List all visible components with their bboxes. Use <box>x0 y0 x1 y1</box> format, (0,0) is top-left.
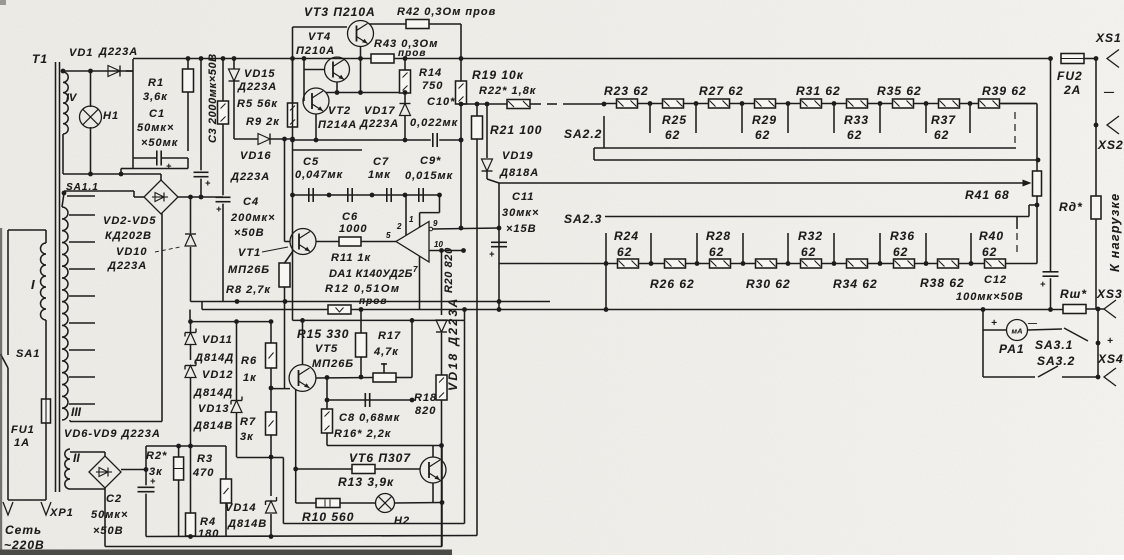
svg-text:62: 62 <box>847 128 862 142</box>
zener VD14 <box>270 457 272 496</box>
svg-text:R11 1к: R11 1к <box>331 252 372 264</box>
wire VT5 collector <box>302 320 304 364</box>
resistor R12 <box>328 305 351 314</box>
transistor VT1 <box>290 229 316 255</box>
svg-text:FU2: FU2 <box>1057 69 1083 83</box>
svg-text:I: I <box>31 277 35 292</box>
zener VD11 <box>190 322 192 332</box>
wire VT6 emitter <box>432 483 434 503</box>
resistor R6 <box>270 322 272 343</box>
svg-text:VT6 П307: VT6 П307 <box>349 451 411 465</box>
diode VD16 <box>258 134 270 145</box>
svg-text:FU1: FU1 <box>11 424 35 436</box>
svg-text:R22* 1,8к: R22* 1,8к <box>479 85 537 97</box>
svg-text:820: 820 <box>415 405 436 417</box>
wire top primary <box>8 229 46 231</box>
row1 chain wire <box>604 103 1036 105</box>
connector XS3 <box>1104 300 1116 318</box>
wire R42 to rail drop <box>429 23 461 25</box>
row2 junction stubs <box>604 261 609 266</box>
wire bridge II plus <box>121 469 146 471</box>
wire lamp H1 top <box>90 71 92 107</box>
fuse FU1 <box>42 399 51 423</box>
svg-text:ХS2: ХS2 <box>1097 138 1124 152</box>
svg-text:3к: 3к <box>149 466 163 478</box>
svg-text:R21 100: R21 100 <box>490 123 542 137</box>
svg-text:180: 180 <box>198 528 219 540</box>
svg-text:R16* 2,2к: R16* 2,2к <box>334 428 392 440</box>
resistor R5 <box>292 59 294 104</box>
wire VT4 base <box>304 69 325 71</box>
row1 junction stubs <box>648 101 653 106</box>
switch SA2.2 contact dash <box>547 103 557 105</box>
resistor R11 <box>339 237 361 246</box>
node winding IV top <box>61 69 66 74</box>
svg-text:Д223А: Д223А <box>230 171 270 183</box>
svg-text:С7: С7 <box>373 156 389 168</box>
svg-text:IV: IV <box>66 92 78 104</box>
svg-text:750: 750 <box>422 80 443 92</box>
opamp pin 9 line <box>429 227 433 231</box>
svg-text:R40: R40 <box>979 229 1004 243</box>
capacitor C4 <box>222 124 224 195</box>
wire emitters bus <box>326 92 405 94</box>
diode VD18 <box>441 251 443 316</box>
svg-text:С9*: С9* <box>420 155 441 167</box>
mains wire left (SA1 branch) <box>7 230 9 355</box>
svg-text:+: + <box>216 204 222 214</box>
resistor R1 <box>187 59 189 70</box>
wire R2 bus <box>146 445 226 447</box>
svg-text:Д814Д: Д814Д <box>193 387 233 399</box>
capacitor C2 <box>145 446 147 485</box>
opamp pin 10 line <box>429 250 464 252</box>
top rail left segment <box>133 58 371 60</box>
diode VD19 <box>486 104 488 158</box>
switch SA3.2 <box>1038 366 1058 377</box>
svg-text:0,015мк: 0,015мк <box>405 170 454 182</box>
resistor R24 <box>618 259 639 268</box>
svg-text:0,022мк: 0,022мк <box>410 117 459 129</box>
resistor R17 <box>373 373 396 382</box>
svg-text:R30 62: R30 62 <box>746 277 791 291</box>
svg-text:×50мк: ×50мк <box>141 137 179 149</box>
resistor R37 <box>939 99 960 108</box>
svg-text:Rш*: Rш* <box>1060 287 1087 301</box>
svg-text:×50В: ×50В <box>234 227 265 239</box>
transistor VT3 <box>348 21 374 47</box>
svg-text:П214А: П214А <box>318 119 357 131</box>
winding II <box>65 449 70 489</box>
capacitor C10 <box>432 133 434 147</box>
svg-text:Д814В: Д814В <box>227 518 267 530</box>
wire bridge plus to C4 <box>178 196 223 198</box>
svg-text:КД202В: КД202В <box>105 230 152 242</box>
svg-text:62: 62 <box>801 245 816 259</box>
svg-text:С12: С12 <box>984 274 1007 286</box>
resistor R25 <box>663 99 684 108</box>
svg-text:62: 62 <box>982 245 997 259</box>
wire H2 to VT6 emitter <box>395 502 443 505</box>
wire VD10 line <box>190 197 192 233</box>
svg-text:R23 62: R23 62 <box>604 84 649 98</box>
wire winding I to FU1 <box>45 320 47 399</box>
wire stabilizer box left edge <box>292 27 294 320</box>
resistor R21 <box>476 104 478 116</box>
svg-text:VT1: VT1 <box>238 247 261 259</box>
svg-text:R4: R4 <box>200 516 216 528</box>
svg-text:Д814Д: Д814Д <box>194 352 234 364</box>
svg-text:R1: R1 <box>148 77 164 89</box>
svg-text:VD12: VD12 <box>202 369 234 381</box>
svg-text:×50В: ×50В <box>93 525 124 537</box>
linkage dashes row2 <box>1016 233 1018 256</box>
wire loop line y320 <box>293 319 465 321</box>
wire VT3 emitter down <box>360 47 362 93</box>
resistor R22 <box>507 100 530 109</box>
resistor R16 <box>326 378 328 409</box>
winding IV <box>63 72 68 134</box>
svg-text:R26 62: R26 62 <box>650 277 695 291</box>
wire jog to box <box>120 169 122 175</box>
wire SA2.2 blade <box>563 103 604 105</box>
resistor R4 <box>190 446 192 513</box>
wire lamp H1 bottom <box>90 127 92 174</box>
wire C8 bus <box>327 399 412 401</box>
zener VD12 <box>185 366 196 378</box>
wire R21 down <box>476 139 478 536</box>
resistor R43 in rail <box>371 54 394 63</box>
wire caps bus <box>293 194 440 196</box>
svg-text:R8 2,7к: R8 2,7к <box>226 284 271 296</box>
resistor R27 <box>709 99 730 108</box>
svg-text:R32: R32 <box>798 229 823 243</box>
wire winding III top lead <box>62 193 64 207</box>
svg-text:VD6-VD9 Д223А: VD6-VD9 Д223А <box>64 428 161 440</box>
bridge VD2-VD5 <box>144 180 178 214</box>
plug XP1 <box>8 499 46 501</box>
opamp pin 2 <box>405 195 407 236</box>
svg-text:РА1: РА1 <box>999 342 1025 356</box>
svg-text:SA2.3: SA2.3 <box>564 212 602 226</box>
svg-text:Rд*: Rд* <box>1059 200 1083 214</box>
wire winding IV top <box>63 70 133 72</box>
node SA1.1 wiper <box>62 191 67 196</box>
svg-text:SA3.2: SA3.2 <box>1037 354 1075 368</box>
wire VT5 base link <box>270 388 290 390</box>
wire R10 to H2 <box>340 502 376 504</box>
wire winding III bottom lead <box>70 421 162 423</box>
svg-text:VD19: VD19 <box>502 150 534 162</box>
top rail middle segment <box>394 58 1051 60</box>
svg-text:VD18 Д223А: VD18 Д223А <box>446 296 460 391</box>
svg-text:Д223А: Д223А <box>107 260 147 272</box>
svg-text:R12 0,51Ом: R12 0,51Ом <box>325 283 400 295</box>
lamp H1 <box>80 106 102 128</box>
wire winding IV bottom <box>62 134 64 174</box>
svg-text:VD15: VD15 <box>244 68 276 80</box>
svg-text:R33: R33 <box>844 113 869 127</box>
wire stabilizer box top <box>293 149 363 151</box>
resistor R10 <box>316 499 340 508</box>
svg-text:R19 10к: R19 10к <box>472 68 524 82</box>
svg-text:II: II <box>73 451 80 465</box>
transistor VT4 <box>325 57 350 82</box>
svg-text:SA3.1: SA3.1 <box>1035 338 1073 352</box>
svg-text:ХS1: ХS1 <box>1095 31 1122 45</box>
svg-text:VD13: VD13 <box>198 403 230 415</box>
svg-text:62: 62 <box>709 245 724 259</box>
zener VD13 <box>236 322 238 400</box>
wire R16 bottom bus <box>327 445 442 447</box>
svg-text:ХS4: ХS4 <box>1097 352 1124 366</box>
svg-text:—: — <box>1027 318 1038 328</box>
svg-text:VD2-VD5: VD2-VD5 <box>103 215 156 227</box>
wire VT4 emitter down <box>336 82 338 93</box>
svg-text:пров: пров <box>398 48 426 59</box>
linkage dashes row1 <box>1014 112 1016 146</box>
opamp pin 7 <box>419 256 421 310</box>
resistor R29 <box>755 99 776 108</box>
svg-text:2: 2 <box>396 222 402 231</box>
svg-text:пров: пров <box>359 296 387 307</box>
svg-text:R9 2к: R9 2к <box>246 116 280 128</box>
svg-text:Н1: Н1 <box>103 110 119 122</box>
lamp H2 <box>376 494 395 513</box>
node R42 drop <box>459 56 464 61</box>
svg-text:470: 470 <box>192 467 214 479</box>
resistor Rd <box>1091 196 1101 219</box>
leader VT1 <box>262 247 288 252</box>
svg-text:VD1: VD1 <box>69 47 93 59</box>
node C3 bottom <box>199 195 204 200</box>
resistor R7 <box>266 412 277 435</box>
resistor R23 <box>617 99 638 108</box>
switch SA3.1 <box>1064 328 1088 341</box>
wire R13 bus <box>296 468 352 470</box>
svg-text:SA2.2: SA2.2 <box>564 127 602 141</box>
wire VT6 line to bottom rail <box>441 446 443 547</box>
resistor R31 <box>801 99 822 108</box>
rail step <box>201 302 203 310</box>
bus SA2.3 <box>605 216 1029 218</box>
node rail to FU2 <box>1048 56 1053 61</box>
wire loop stub <box>464 310 466 321</box>
svg-text:С2: С2 <box>106 493 122 505</box>
svg-text:1: 1 <box>409 215 414 224</box>
SA2.3 wiper tick <box>1016 217 1018 230</box>
fuse FU2 <box>1061 54 1084 64</box>
svg-text:VD17: VD17 <box>364 105 396 117</box>
wire meter to SA3.1 <box>1028 329 1063 330</box>
connector XS1 <box>1107 50 1119 68</box>
wire R19 bottom to pin9 <box>460 104 462 228</box>
svg-text:R13 3,9к: R13 3,9к <box>338 475 394 489</box>
svg-text:R28: R28 <box>706 229 731 243</box>
svg-text:Д814В: Д814В <box>193 420 233 432</box>
node VD10 top <box>188 195 193 200</box>
capacitor C3 <box>200 59 202 171</box>
svg-text:1к: 1к <box>243 372 257 384</box>
svg-text:Н2: Н2 <box>394 515 410 527</box>
leader VD10 <box>155 247 180 252</box>
svg-text:VD11: VD11 <box>202 334 233 346</box>
transformer core <box>55 62 57 492</box>
transistor VT5 <box>289 365 316 392</box>
resistor R13 <box>352 465 375 474</box>
wire VT1 to R11 <box>316 241 339 243</box>
switch SA1 <box>1 354 9 368</box>
svg-text:4,7к: 4,7к <box>373 346 399 358</box>
diode VD1 <box>108 66 120 77</box>
wire winding II to bridge top <box>70 451 105 453</box>
svg-text:62: 62 <box>893 245 908 259</box>
svg-text:3,6к: 3,6к <box>143 91 168 103</box>
winding I <box>41 243 46 320</box>
wire loop bottom <box>283 523 464 525</box>
svg-text:ХS3: ХS3 <box>1096 287 1123 301</box>
svg-text:+: + <box>166 161 172 171</box>
svg-text:+: + <box>991 318 998 329</box>
svg-text:50мк×: 50мк× <box>137 122 174 134</box>
wire VD13 bottom bus <box>237 457 272 459</box>
svg-text:+: + <box>489 249 495 259</box>
winding III taps <box>67 195 95 197</box>
wire SA3.2 bottom <box>983 376 1035 378</box>
node SA3.1 <box>1096 341 1101 346</box>
svg-text:Сеть: Сеть <box>5 523 42 537</box>
svg-text:62: 62 <box>617 245 632 259</box>
svg-text:R29: R29 <box>752 113 777 127</box>
wire R6-R7 node <box>270 368 272 412</box>
wire R8 node down to VT5 base <box>284 302 286 389</box>
wire R22 to SA2.2 gap <box>530 103 541 105</box>
wire XS1 to XS2 <box>1095 59 1097 197</box>
wire box left edge <box>132 59 134 169</box>
wire R11 to opamp <box>361 241 396 243</box>
wire R39 to pot drop <box>1001 103 1037 105</box>
svg-text:Т1: Т1 <box>32 52 48 66</box>
svg-text:+: + <box>1107 336 1114 347</box>
wire VT2 base <box>303 100 304 102</box>
rail R8 bottom <box>191 301 551 303</box>
svg-text:R27 62: R27 62 <box>699 84 744 98</box>
resistor R8 <box>285 251 294 263</box>
scan edge bottom <box>0 550 452 556</box>
wire pot bottom <box>1036 196 1038 205</box>
svg-text:Д818А: Д818А <box>499 167 539 179</box>
capacitor C6 <box>347 188 349 202</box>
svg-text:50мк×: 50мк× <box>91 509 128 521</box>
wire SA1.1 to bridge <box>64 190 134 192</box>
svg-text:9: 9 <box>433 219 438 228</box>
wire R22 node <box>461 103 507 105</box>
svg-text:VT5: VT5 <box>315 343 338 355</box>
wire R17 right up <box>396 377 412 379</box>
svg-text:R35 62: R35 62 <box>877 84 922 98</box>
resistor R15 <box>360 310 362 334</box>
wire meter branch down <box>982 310 984 378</box>
wire left drop to H2 bus <box>295 469 297 503</box>
resistor R34 <box>847 259 868 268</box>
svg-text:МП26Б: МП26Б <box>312 358 354 370</box>
svg-text:R24: R24 <box>614 229 639 243</box>
wire winding II to bridge bottom <box>70 488 105 490</box>
svg-text:—: — <box>1103 87 1115 98</box>
svg-text:VT2: VT2 <box>328 105 351 117</box>
svg-text:С8 0,68мк: С8 0,68мк <box>339 412 401 424</box>
svg-text:VT3 П210А: VT3 П210А <box>304 5 376 19</box>
wire C10 bus <box>293 139 431 141</box>
svg-text:С5: С5 <box>303 156 319 168</box>
wire FU1 to plug <box>45 423 47 500</box>
resistor R35 <box>893 99 914 108</box>
svg-text:R7: R7 <box>240 416 256 428</box>
svg-text:С6: С6 <box>342 211 358 223</box>
resistor R36 <box>894 259 915 268</box>
svg-text:мА: мА <box>1012 327 1023 336</box>
wire VT5 emitter down <box>295 390 297 470</box>
wire VT2 emitter down <box>315 114 317 140</box>
svg-text:R41 68: R41 68 <box>965 188 1010 202</box>
svg-text:R18: R18 <box>414 392 437 404</box>
svg-text:ХР1: ХР1 <box>49 507 74 519</box>
svg-text:VD10: VD10 <box>116 246 148 258</box>
svg-text:Д223А: Д223А <box>359 118 399 130</box>
resistor R30 <box>756 259 777 268</box>
diode VD17 <box>404 93 406 103</box>
row2 chain wire <box>499 263 606 265</box>
svg-text:С4: С4 <box>243 196 259 208</box>
svg-text:62: 62 <box>665 128 680 142</box>
svg-text:3к: 3к <box>240 431 254 443</box>
wire pin9 to C11 <box>498 183 500 310</box>
svg-text:R17: R17 <box>378 330 401 342</box>
resistor R33 <box>847 99 868 108</box>
resistor R32 <box>801 259 822 268</box>
wire R18 line down <box>441 446 443 547</box>
svg-text:0,047мк: 0,047мк <box>295 169 344 181</box>
capacitor C9 <box>418 188 420 202</box>
svg-text:R20 820: R20 820 <box>443 247 455 293</box>
wire pot step to SA2.3 bus <box>1029 204 1037 206</box>
svg-text:Д223А: Д223А <box>98 46 138 58</box>
wire SA3 column <box>1097 309 1099 377</box>
transistor VT2 <box>303 88 329 114</box>
svg-text:R3: R3 <box>197 453 213 465</box>
resistor R9 chain <box>222 59 224 102</box>
transistor VT6 <box>420 457 446 483</box>
svg-text:МП26Б: МП26Б <box>228 264 270 276</box>
svg-text:VT4: VT4 <box>308 31 331 43</box>
connector XS4 <box>1104 368 1116 386</box>
svg-text:×15В: ×15В <box>506 223 537 235</box>
wire C1 right to jog <box>187 158 189 169</box>
svg-text:R39 62: R39 62 <box>982 84 1027 98</box>
rail minus main <box>202 309 1063 311</box>
svg-text:Д223А: Д223А <box>237 81 277 93</box>
svg-text:R37: R37 <box>931 113 956 127</box>
switch SA2.2 wiper <box>603 116 605 148</box>
svg-text:III: III <box>71 405 82 419</box>
capacitor C12 <box>1050 59 1052 272</box>
winding III <box>62 207 68 420</box>
resistor R18 <box>436 375 447 400</box>
wire bridge II minus <box>104 488 106 547</box>
wire R7 node to loop <box>271 457 283 459</box>
wire VT5 out bus <box>316 377 373 380</box>
svg-text:200мк×: 200мк× <box>230 212 276 224</box>
